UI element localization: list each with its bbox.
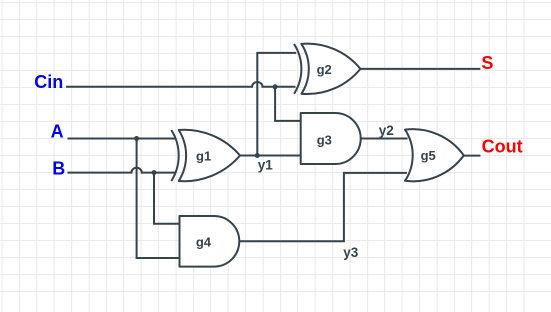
and gate g3 (301, 113, 361, 164)
wire y1 riser up to g2 input A (257, 53, 296, 156)
wire Cin branch down to g3 input A (275, 87, 301, 121)
svg-text:g1: g1 (196, 148, 211, 163)
wire input A horizontal (68, 138, 176, 140)
svg-text:y3: y3 (343, 245, 359, 260)
xor gate g2 extra arc (294, 44, 301, 94)
wire y1 from g1 output to g3 input B (240, 155, 301, 157)
junction dot on B wire (152, 170, 157, 175)
wire Cout from g5 output (464, 155, 481, 157)
wire y3 from g4 output up to g5 input B (239, 173, 407, 241)
xor gate g2 body (301, 44, 360, 94)
wire S from g2 output (360, 68, 480, 70)
svg-text:g4: g4 (196, 235, 212, 250)
junction dot on Cin wire (273, 84, 278, 89)
junction dot on y1 wire (255, 153, 260, 158)
svg-text:g2: g2 (317, 62, 332, 77)
svg-text:Cout: Cout (482, 137, 523, 157)
svg-text:Cin: Cin (34, 72, 63, 92)
wire y2 from g3 output to g5 input A (361, 138, 408, 140)
and gate g4 (180, 216, 240, 267)
xor gate g1 extra arc (171, 130, 178, 181)
or gate g5 (405, 129, 464, 181)
wire B riser down to g4 input A (154, 173, 180, 224)
xor gate g1 body (179, 130, 240, 181)
junction dot on A wire (134, 136, 139, 141)
svg-text:g5: g5 (421, 148, 436, 163)
wire input B horizontal with hop over A riser (68, 168, 177, 173)
svg-text:y1: y1 (258, 157, 274, 172)
svg-text:B: B (52, 158, 65, 178)
svg-text:S: S (481, 53, 493, 73)
wire A riser down to g4 input B (137, 139, 180, 259)
svg-text:y2: y2 (379, 123, 394, 138)
svg-text:A: A (51, 121, 64, 141)
svg-text:g3: g3 (317, 133, 332, 148)
wire Cin horizontal with hop over y1 riser (66, 82, 296, 87)
